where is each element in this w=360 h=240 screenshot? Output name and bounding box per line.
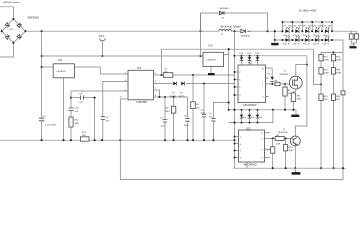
svg-text:IC4: IC4 [58,58,63,62]
bridge rectifier B1 KBP206G [1,16,39,44]
inductor L1 68uH [219,24,241,35]
wire C4 branch [203,84,205,141]
diode D2 [181,82,184,85]
wire IC1 pin6 down long [120,98,128,100]
wire IC2 left pins [235,72,239,95]
wire outer loop [120,99,343,180]
resistor R7 pulldown [284,83,286,85]
capacitor C3 47n [101,117,110,123]
wire IC1 pin5 line [154,96,188,98]
wire IC5 out [224,49,229,54]
wire IC1 pin3 out with D1 D2 [154,83,235,85]
LED row 2 [275,40,343,52]
resistor P1 25k [163,69,173,78]
diode D3 at IC2 right [266,68,275,84]
svg-text:KBP2061 elektor: KBP2061 elektor [3,1,20,4]
jumper HS1 [99,34,105,57]
resistor R10 branch [285,138,287,168]
svg-text:IRF9640: IRF9640 [280,74,289,76]
svg-text:MUR460: MUR460 [220,8,229,10]
capacitor C11 to ground [274,40,276,43]
wire AC input top [0,7,13,19]
svg-text:HS 1: HS 1 [99,34,105,38]
diode D1 [173,82,176,85]
capacitor C6 branch [213,103,228,141]
wire vcc vertical x234.5 [234,31,236,168]
svg-text:1uF: 1uF [74,111,78,113]
svg-text:100n: 100n [184,125,190,127]
wire gate line + resistor R6 [266,83,291,85]
wire feedback top [162,49,322,84]
ground IC5 [210,67,212,73]
svg-text:220R: 220R [336,59,342,61]
transistor T1 MJE2955 [278,129,300,146]
svg-text:47R: 47R [323,99,327,101]
svg-text:1uF: 1uF [79,102,83,104]
svg-text:2.2uF 400V: 2.2uF 400V [45,124,57,126]
wire R5 branch [192,75,194,140]
wire IC3 right pins [265,132,270,157]
wire IC4 input [42,66,54,68]
diode D11 [249,56,251,65]
diode D6b [257,110,259,123]
wire T1 collector link [295,65,307,136]
resistor R4 1M0 [165,97,176,140]
diode D10 [241,56,243,65]
svg-text:MJE2955: MJE2955 [278,132,288,134]
LED row2 diodes D12-D16 [281,36,333,46]
wire IC4 ground [63,78,65,140]
ground under R8 [291,115,299,117]
LED row1 taps [283,22,333,31]
resistor chain A x321 [319,52,329,168]
wire line above IC3 bottom [229,110,273,123]
svg-text:IC2: IC2 [248,61,253,65]
diode D5 MUR460 [219,8,229,20]
wire mid vertical x228.7 [228,55,230,110]
resistor R21 [349,34,353,39]
svg-text:8x 180lm 400V: 8x 180lm 400V [299,8,317,12]
resistor R5 [191,102,201,110]
wire IC3 bottom pin [246,162,248,168]
capacitor C8 1uF horizontal [71,94,95,104]
svg-text:10R: 10R [276,143,280,145]
svg-text:47R: 47R [336,99,340,101]
wire row2-end vertical with fuse box [342,52,344,179]
capacitor C2 [160,97,167,140]
wire line above IC3 top [229,109,296,111]
LED D7-D11 row1 [283,26,332,34]
resistor R11 1M0 [69,117,80,127]
op IC2 MC34063 [238,61,266,108]
wire node line y56 [42,55,203,57]
op IC5 regulator [203,44,224,67]
svg-text:LM78L05: LM78L05 [57,71,67,73]
wire bottom local ground line [233,167,346,169]
svg-text:MUR460: MUR460 [241,35,250,37]
diode D12 [257,56,259,65]
svg-text:BAT85: BAT85 [178,95,185,98]
wire IC1 pin2 to C3 [103,82,128,141]
op IC3 MC34063 [239,126,265,166]
svg-text:10R: 10R [289,150,293,152]
diode D6 MUR460 on rail [241,29,251,37]
transistor T2 IRF9640 [280,71,303,89]
wire branch x71 [70,91,72,140]
wire main rail +V [26,30,220,32]
wire R21 R22 to ground [351,39,356,46]
svg-text:MC34063: MC34063 [243,103,256,107]
svg-text:LM78L05: LM78L05 [207,59,217,61]
capacitor C10 [69,107,80,112]
op-amp IC1 timer [120,66,156,104]
wire column bottoms [320,167,322,169]
node rail junctions [41,30,43,32]
wire IC1 pin3 line [71,90,128,92]
wire cap C8 down [94,98,96,141]
LED row1 value labels [283,35,329,37]
svg-text:ICM7555: ICM7555 [136,100,147,104]
diode D4 [241,110,243,123]
resistor chain B x333.5 [331,52,341,168]
resistor R9 series [275,136,284,140]
wire row1 end to R21 R22 [332,31,356,34]
wire IC2 right stubs [266,78,269,97]
capacitor C9 2.2uF [39,116,57,127]
wire IC1 pin out to P1 [154,74,164,76]
LED row 1 bus [283,21,333,23]
wire IC4 output to IC1 pin [74,67,128,74]
wire left vertical branch [41,31,43,140]
wire bypass with D5 [201,13,268,31]
resistor R12 series [80,132,89,141]
wire row2 feed from rail [274,31,276,40]
resistor R22 [355,34,359,39]
capacitor C5 [184,97,190,140]
wire IC1 pin1 stub [154,90,160,97]
wire vcc line above IC2 [235,56,307,65]
ground right top [349,46,356,48]
wire T1 emitter down [294,146,296,168]
diode D5b [249,110,251,123]
svg-text:IC1: IC1 [137,66,142,70]
svg-text:68 uH-sat. 4A(pk): 68 uH-sat. 4A(pk) [221,24,241,28]
svg-text:100n: 100n [200,113,206,115]
wire AC input bottom [0,43,13,57]
svg-text:KBP206G: KBP206G [28,16,40,20]
svg-text:220R: 220R [323,73,329,75]
ground main [294,168,296,172]
ground stub under R8 [295,110,297,115]
svg-text:220R: 220R [336,73,342,75]
wire T2 drain up [296,65,307,77]
svg-text:220R: 220R [323,59,329,61]
resistor R8 [291,89,301,110]
wire IC3 left pins [235,137,239,158]
svg-text:IC5: IC5 [209,44,214,48]
op IC4 regulator [53,58,74,78]
wire IC5 input [200,13,202,56]
svg-text:MC34063: MC34063 [244,163,257,167]
capacitor C13 branch [272,138,274,168]
capacitor C4 [200,109,206,117]
wire IC3 base line to T1 [265,137,291,139]
wire bottom ground rail [0,139,235,141]
wire right column bus [321,51,343,53]
